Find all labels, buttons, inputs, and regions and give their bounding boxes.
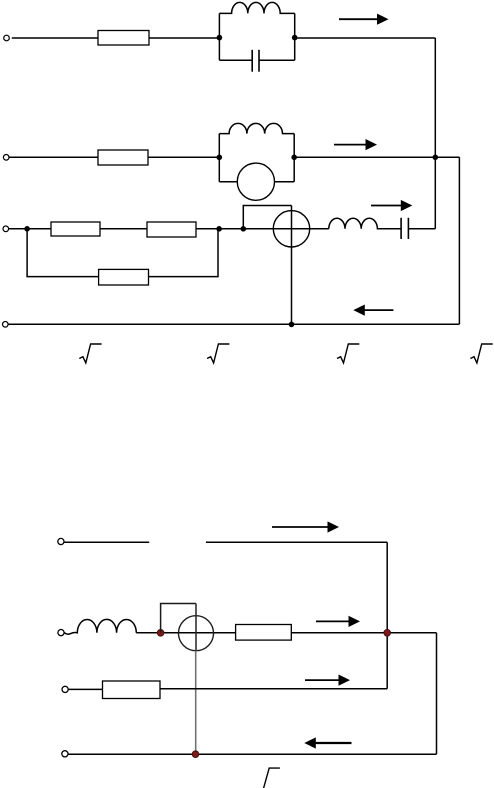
- wire: [218, 134, 220, 182]
- node C2: [216, 226, 222, 232]
- terminal n: [62, 751, 68, 757]
- resistor R4: [147, 222, 196, 237]
- node C1: [24, 226, 30, 232]
- capacitor C1: [219, 50, 294, 72]
- inductor L3: [329, 218, 401, 229]
- arrow current Ic: [305, 675, 350, 686]
- wire: [68, 753, 437, 755]
- node C3: [241, 226, 247, 232]
- wire: [149, 37, 219, 39]
- radical sign bottom: [263, 768, 280, 788]
- resistor R3: [51, 222, 100, 236]
- wire: [458, 157, 460, 324]
- arrow current I1: [339, 14, 389, 25]
- wire: [9, 156, 98, 158]
- wire: [12, 37, 98, 39]
- wire: [206, 541, 387, 543]
- wire: [294, 156, 459, 158]
- wattmeter W1: [273, 211, 309, 247]
- wire: [436, 633, 438, 754]
- arrow current I2: [334, 139, 377, 150]
- wire: [160, 688, 387, 690]
- machine M1 circle: [237, 163, 274, 200]
- wire: [69, 688, 103, 690]
- wire: [136, 632, 235, 634]
- voltage coil loop: [243, 206, 291, 229]
- radical sign 1: [79, 344, 101, 363]
- wire: [291, 632, 436, 634]
- wire: [386, 542, 388, 688]
- resistor R1: [98, 31, 149, 46]
- wire: [219, 181, 237, 183]
- wire gray drop: [195, 651, 197, 755]
- resistor R6: [236, 625, 292, 641]
- resistor R2: [98, 150, 148, 165]
- node A1: [217, 35, 223, 41]
- wire: [8, 323, 459, 325]
- capacitor C2: [401, 218, 435, 239]
- wire: [243, 228, 328, 230]
- terminal b: [58, 630, 64, 636]
- inductor L4: [64, 619, 136, 634]
- arrow current Ia: [272, 521, 339, 532]
- node B1: [217, 155, 223, 161]
- junction dot: [192, 751, 199, 758]
- voltage coil loop: [161, 604, 196, 633]
- wire: [291, 206, 293, 325]
- wire: [294, 13, 296, 60]
- arrow current I4: [353, 305, 393, 316]
- wire: [293, 134, 295, 182]
- resistor R5: [99, 269, 149, 285]
- wire: [218, 13, 220, 60]
- terminal a: [58, 538, 64, 544]
- terminal phase B: [3, 155, 9, 161]
- terminal phase A: [4, 35, 10, 41]
- wire: [100, 228, 147, 230]
- resistor R7: [103, 681, 161, 699]
- wire: [196, 228, 243, 230]
- radical sign 2: [207, 344, 229, 363]
- arrow current I3: [371, 200, 412, 211]
- radical sign 4: [470, 344, 492, 363]
- wire: [434, 38, 436, 229]
- junction dot: [289, 322, 295, 328]
- node B2: [291, 155, 297, 161]
- inductor L1: [219, 2, 294, 13]
- terminal phase C: [3, 226, 9, 232]
- wire: [149, 229, 219, 277]
- terminal neutral N: [3, 322, 9, 328]
- radical sign 3: [337, 344, 359, 363]
- junction dot: [157, 629, 164, 636]
- wire: [148, 156, 219, 158]
- terminal c: [62, 686, 68, 692]
- junction dot: [433, 155, 439, 161]
- arrow current Ib: [316, 616, 360, 627]
- wire: [9, 228, 51, 230]
- arrow current In: [304, 737, 351, 748]
- wire parallel branch: [27, 229, 99, 277]
- wire: [295, 37, 436, 39]
- inductor L2: [219, 123, 294, 133]
- junction dot: [384, 629, 391, 636]
- wire: [275, 181, 295, 183]
- node A2: [292, 35, 298, 41]
- wattmeter W2: [179, 616, 214, 651]
- wire: [195, 604, 197, 651]
- wire: [65, 541, 150, 543]
